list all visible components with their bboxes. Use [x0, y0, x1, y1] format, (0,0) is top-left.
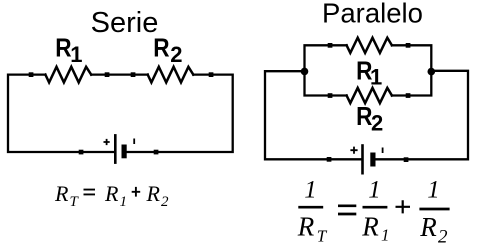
svg-text:2: 2 [170, 42, 182, 67]
svg-text:1: 1 [370, 64, 382, 89]
svg-text:1: 1 [304, 177, 317, 204]
svg-text:Paralelo: Paralelo [322, 0, 423, 29]
svg-text:Serie: Serie [91, 7, 159, 39]
svg-text:1: 1 [427, 177, 440, 204]
svg-text:R: R [153, 34, 170, 63]
svg-text:1: 1 [368, 177, 381, 204]
svg-text:1: 1 [70, 42, 82, 67]
svg-text:2: 2 [371, 110, 383, 135]
